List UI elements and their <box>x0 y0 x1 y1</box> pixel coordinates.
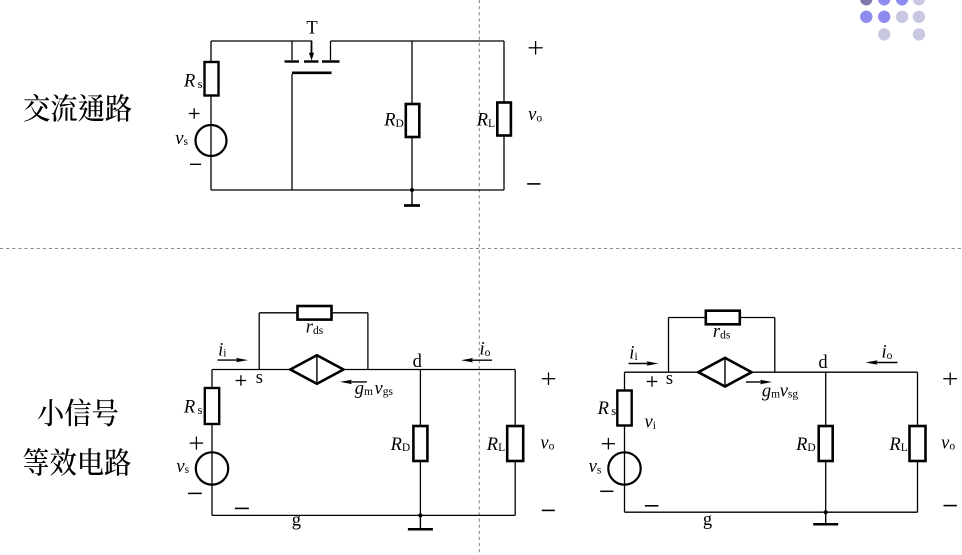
svg-text:RD: RD <box>795 435 816 455</box>
svg-text:vs: vs <box>589 457 602 477</box>
svg-text:io: io <box>882 343 893 363</box>
svg-text:Rs: Rs <box>183 398 203 418</box>
svg-text:g: g <box>703 510 712 530</box>
svg-text:d: d <box>413 352 423 372</box>
svg-text:vsg: vsg <box>780 381 799 401</box>
svg-text:vs: vs <box>176 457 189 477</box>
svg-text:vgs: vgs <box>375 379 394 399</box>
svg-text:vs: vs <box>175 129 188 149</box>
svg-text:vo: vo <box>528 105 542 125</box>
svg-text:Rs: Rs <box>597 399 617 419</box>
svg-text:g: g <box>292 511 301 531</box>
svg-text:ii: ii <box>629 344 637 364</box>
svg-text:RL: RL <box>486 435 505 455</box>
svg-text:d: d <box>818 353 828 373</box>
svg-text:io: io <box>480 340 491 360</box>
svg-text:gm: gm <box>355 379 373 399</box>
svg-text:vi: vi <box>645 413 656 433</box>
svg-text:RL: RL <box>888 435 907 455</box>
svg-text:RD: RD <box>383 111 404 131</box>
svg-text:vo: vo <box>941 433 955 453</box>
svg-text:RL: RL <box>476 111 495 131</box>
svg-text:s: s <box>256 368 263 388</box>
svg-text:s: s <box>666 369 673 389</box>
svg-text:T: T <box>306 18 317 38</box>
svg-text:vo: vo <box>540 433 554 453</box>
svg-text:RD: RD <box>390 435 411 455</box>
svg-text:ii: ii <box>218 340 226 360</box>
svg-text:gm: gm <box>762 381 780 401</box>
svg-text:Rs: Rs <box>183 72 203 92</box>
